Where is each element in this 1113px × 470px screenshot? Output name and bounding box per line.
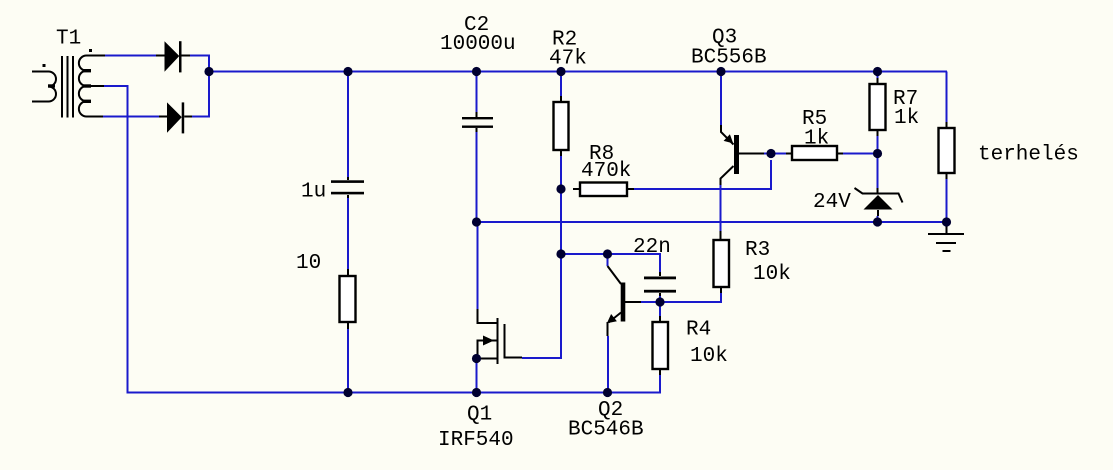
svg-text:10: 10: [296, 252, 321, 275]
svg-text:24V: 24V: [813, 191, 851, 214]
svg-text:R3: R3: [745, 239, 770, 262]
svg-text:1u: 1u: [301, 181, 326, 204]
svg-text:1k: 1k: [894, 107, 919, 130]
svg-text:470k: 470k: [581, 160, 631, 183]
svg-text:1k: 1k: [804, 128, 829, 151]
svg-text:BC556B: BC556B: [691, 47, 767, 70]
svg-text:IRF540: IRF540: [438, 429, 514, 452]
svg-text:10000u: 10000u: [440, 33, 516, 56]
svg-text:terhelés: terhelés: [978, 144, 1079, 167]
svg-text:R4: R4: [686, 319, 711, 342]
svg-text:BC546B: BC546B: [568, 419, 644, 442]
svg-text:22n: 22n: [633, 236, 671, 259]
svg-text:47k: 47k: [549, 48, 587, 71]
svg-text:Q1: Q1: [467, 404, 492, 427]
svg-text:10k: 10k: [690, 345, 728, 368]
svg-text:T1: T1: [56, 28, 81, 51]
svg-text:10k: 10k: [753, 263, 791, 286]
